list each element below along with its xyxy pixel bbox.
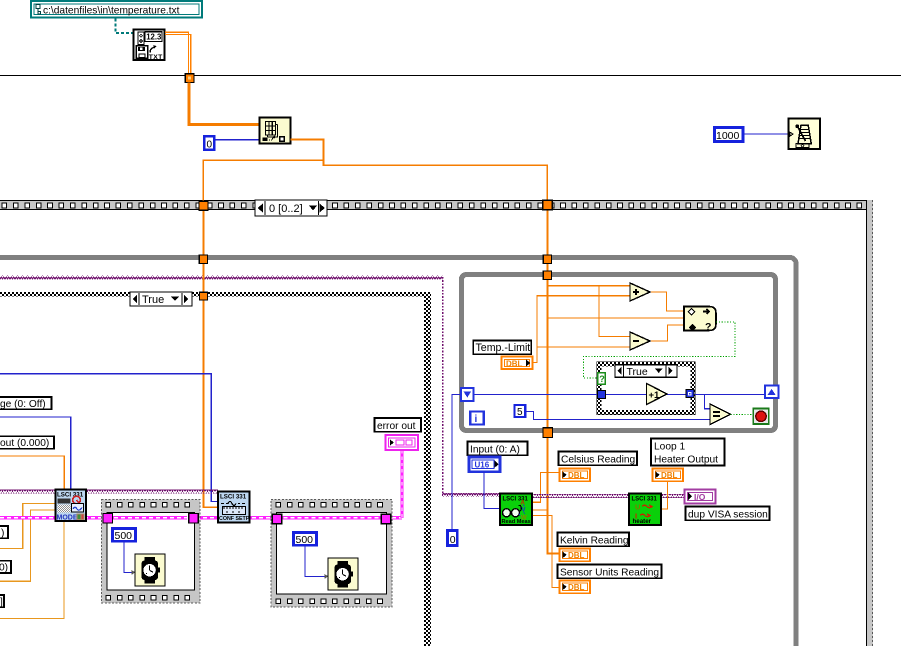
terminal: iteration i <box>470 411 483 424</box>
control: Temp.-Limit DBL <box>502 357 533 370</box>
svg-text:500: 500 <box>296 534 314 546</box>
function: equal? <box>710 404 731 425</box>
svg-text:1000: 1000 <box>716 130 740 142</box>
wire: VISA purple Read Meas to heater <box>532 494 629 498</box>
svg-text:Celsius Reading: Celsius Reading <box>561 454 636 465</box>
wire: blue 5 to equals <box>526 411 710 419</box>
svg-text:?: ? <box>705 321 711 333</box>
wire: orange into MODE top <box>0 456 64 490</box>
svg-text:U: U <box>635 503 640 512</box>
svg-text:Loop 1: Loop 1 <box>654 442 685 453</box>
stacked sequence structure right border <box>866 200 873 646</box>
VI icon: LSCI 331 MODE <box>56 490 87 522</box>
function: add <box>630 283 650 301</box>
wire: boolean equals to stop <box>731 414 754 416</box>
svg-text:error out: error out <box>377 421 416 432</box>
wire: teal path wire <box>116 19 134 34</box>
wire: blue index wire <box>216 139 260 140</box>
wire: blue to Wait ms <box>744 133 789 134</box>
wire: blue 500 to wait (frame1) <box>124 542 135 573</box>
wire: add output to In Range <box>650 292 684 311</box>
function: increment +1 <box>647 384 668 405</box>
svg-text:0 [0..2]: 0 [0..2] <box>269 203 303 215</box>
svg-text:500: 500 <box>115 530 133 542</box>
wire: VISA purple MODE to CONF SETP <box>0 490 218 494</box>
wire: orange stair 1 into MODE left <box>0 503 56 548</box>
svg-text:c:\datenfiles\in\temperature.t: c:\datenfiles\in\temperature.txt <box>43 6 180 17</box>
svg-text:0: 0 <box>450 534 456 546</box>
wire: orange branch to add node <box>547 285 630 287</box>
wire: error cluster pink dashed up to error out <box>401 450 404 518</box>
inner case selector label True <box>615 365 677 378</box>
tunnel: case blue output <box>686 390 694 398</box>
svg-text:dup VISA session: dup VISA session <box>688 509 768 520</box>
wire: orange heater U out to Loop1 DBL <box>661 481 667 509</box>
tunnel: orange on case border (left) <box>200 292 208 300</box>
svg-text:DBL: DBL <box>661 471 678 480</box>
for loop border <box>462 275 776 431</box>
function: Wait (ms) metronome <box>789 119 821 150</box>
label Celsius Reading <box>559 452 638 466</box>
svg-text:U16: U16 <box>475 461 490 470</box>
numeric constant 0 (index) <box>204 136 214 150</box>
label Loop 1 Heater Output <box>651 439 725 466</box>
numeric constant 500 (frame 1) <box>113 529 136 542</box>
VI icon: LSCI 331 CONF SETP <box>218 492 250 523</box>
svg-text:DBL: DBL <box>568 583 585 592</box>
VI icon: LSCI 331 heater <box>629 494 661 526</box>
svg-text:CONF SETP: CONF SETP <box>219 516 250 522</box>
svg-text:heater: heater <box>633 518 652 525</box>
svg-text:Input (0: A): Input (0: A) <box>470 444 520 455</box>
label (cut) bottom 2 <box>0 561 11 573</box>
case structure (True) right border checkered <box>424 292 431 646</box>
tunnel: orange on for loop bottom <box>543 428 553 438</box>
sequence frame 1 (filmstrip) <box>102 500 201 604</box>
indicator: dup VISA session I/O <box>685 490 716 504</box>
label Input (0: A) <box>468 442 528 456</box>
svg-text:A: A <box>521 501 526 507</box>
inner case structure True <box>597 362 695 414</box>
wire: 2D array wire to Index Array <box>189 83 259 125</box>
function: Wait ms watch (frame 1) <box>135 554 165 586</box>
wire: VISA purple vertical <box>442 277 444 494</box>
terminal: case selector ? <box>598 373 605 384</box>
while loop border (top and right) <box>0 258 796 646</box>
wire: blue 500 to wait (frame2) <box>305 546 328 577</box>
tunnel: pink frame1 left <box>103 513 113 523</box>
svg-text:Kelvin Reading: Kelvin Reading <box>560 535 629 546</box>
svg-text:DBL: DBL <box>506 360 523 369</box>
numeric constant 5 <box>515 405 526 418</box>
svg-text:?: ? <box>599 374 605 384</box>
svg-text:0: 0 <box>207 140 213 151</box>
svg-text:i: i <box>475 414 478 425</box>
wire: pink error through frame 2 <box>277 516 382 520</box>
indicator: Sensor Units DBL <box>560 581 591 594</box>
function: In Range and Coerce <box>684 307 716 334</box>
function: subtract <box>630 332 650 350</box>
svg-text:TXT: TXT <box>149 54 163 61</box>
wire: blue heater range into MODE <box>0 374 218 502</box>
svg-text:MODE: MODE <box>57 515 78 522</box>
numeric constant 500 (frame 2) <box>294 533 317 546</box>
label dup VISA session <box>686 507 770 521</box>
tunnel: orange on sequence band (left) <box>199 201 208 210</box>
svg-text:DBL: DBL <box>568 471 585 480</box>
wire: orange Read Meas A out to Celsius <box>532 472 559 502</box>
indicator: Loop1 DBL <box>653 469 684 482</box>
wire: orange stair 3 into MODE bottom <box>0 521 64 619</box>
wire: orange Read Meas W out to Sensor Units <box>532 515 559 587</box>
terminal: loop condition stop <box>753 409 768 424</box>
svg-text:out (0.000): out (0.000) <box>0 438 49 449</box>
wire: top frame boundary line <box>0 75 901 76</box>
wire: orange main left vertical to CONF SETP <box>203 202 218 507</box>
wire: blue shift register run <box>473 393 765 395</box>
wire: error cluster pink dashed main run <box>0 516 402 520</box>
wire: VISA purple to Read Meas <box>442 493 500 497</box>
label Temp.-Limit <box>473 341 531 355</box>
numeric constant 1000 <box>715 128 744 142</box>
svg-text:DBL: DBL <box>568 551 585 560</box>
svg-text:True: True <box>627 366 648 378</box>
label (cut) bottom 3 <box>0 595 4 607</box>
wire: orange branch to left vertical <box>203 160 323 202</box>
wire: boolean In Range to case selector <box>584 322 735 378</box>
sequence frame 2 (filmstrip) <box>271 500 392 608</box>
wire: blue from 0 constant up to shift register <box>452 394 461 529</box>
label (cut) out (0.000) <box>0 436 54 449</box>
tunnel: orange on while border (right) <box>543 255 551 263</box>
case selector label "True" (big case) <box>130 292 192 306</box>
wire: orange Read Meas V out <box>532 509 547 511</box>
wire: orange stair 2 into MODE left <box>0 510 56 581</box>
tunnel: orange on while border (left) <box>199 255 207 263</box>
wire: orange branch down to subtract <box>599 286 630 337</box>
wire: VISA purple heater to dup VISA <box>661 494 684 498</box>
tunnel: case blue input <box>598 390 606 398</box>
path constant c:\datenfiles\in\temperature.txt <box>31 1 202 18</box>
indicator: error out cluster <box>386 435 419 450</box>
wire: Temp.-Limit to add/subtract <box>533 296 630 363</box>
label (cut) ge (0: Off) <box>0 397 52 410</box>
svg-text:Sensor Units Reading: Sensor Units Reading <box>560 567 659 578</box>
control: U16 <box>469 457 500 472</box>
VI icon: LSCI 331 Read Meas <box>500 494 532 526</box>
function: Index Array <box>260 118 291 144</box>
tunnel: pink frame2 right <box>381 514 391 524</box>
svg-text:Read Meas: Read Meas <box>502 519 531 525</box>
wire: pink error through frame 1 <box>107 516 187 520</box>
wire: blue branch to equals <box>704 394 710 408</box>
svg-text:): ) <box>1 528 4 539</box>
wire: blue U16 to Read Meas <box>484 472 500 508</box>
wire: subtract output to In Range <box>650 325 684 341</box>
tunnel: pink frame1 right <box>189 513 199 523</box>
wire: VISA purple horizontal into loop <box>0 276 443 280</box>
indicator: Kelvin DBL <box>560 549 591 562</box>
label Sensor Units Reading <box>558 565 662 579</box>
wire: orange main right vertical through loops <box>547 201 559 554</box>
svg-text:5: 5 <box>517 407 523 418</box>
indicator: Celsius DBL <box>560 469 591 482</box>
sequence selector label "0 [0..2]" <box>255 200 327 216</box>
svg-text:]: ] <box>0 597 3 608</box>
tunnel: orange on for loop top <box>543 271 551 279</box>
svg-text:+1: +1 <box>649 390 661 401</box>
tunnel: orange on sequence band (right) <box>543 200 553 210</box>
svg-text:I/O: I/O <box>694 492 706 502</box>
VI icon: Read From Spreadsheet File (12.3 TXT) <box>134 30 165 61</box>
function: Wait ms watch (frame 2) <box>328 558 358 590</box>
case structure (True) top border checkered <box>0 292 431 297</box>
svg-text:12.3: 12.3 <box>146 33 162 42</box>
svg-text:0): 0) <box>0 563 8 574</box>
label (cut) bottom 1 <box>0 526 8 538</box>
wire: 2D array orange double wire from 12.3 icon <box>165 32 188 74</box>
label Kelvin Reading <box>558 533 630 547</box>
numeric constant 0 (shift register init) <box>448 531 458 546</box>
svg-text:Temp.-Limit: Temp.-Limit <box>476 342 531 354</box>
svg-text:ge (0: Off): ge (0: Off) <box>0 399 46 410</box>
label error out <box>375 418 422 432</box>
shift register right <box>765 386 779 399</box>
svg-text:Heater Output: Heater Output <box>654 455 718 466</box>
svg-text:True: True <box>142 294 164 306</box>
tunnel: pink frame2 left <box>272 514 282 524</box>
wire: blue into MODE top <box>0 417 71 490</box>
stacked sequence structure top border (filmstrip) <box>0 200 873 210</box>
wire: orange branch to In Range x input <box>547 317 684 319</box>
svg-text:LSCI 331: LSCI 331 <box>220 494 247 501</box>
shift register left <box>461 388 474 401</box>
tunnel on frame line <box>185 74 194 83</box>
wire: orange scalar out of Index Array <box>291 140 548 202</box>
